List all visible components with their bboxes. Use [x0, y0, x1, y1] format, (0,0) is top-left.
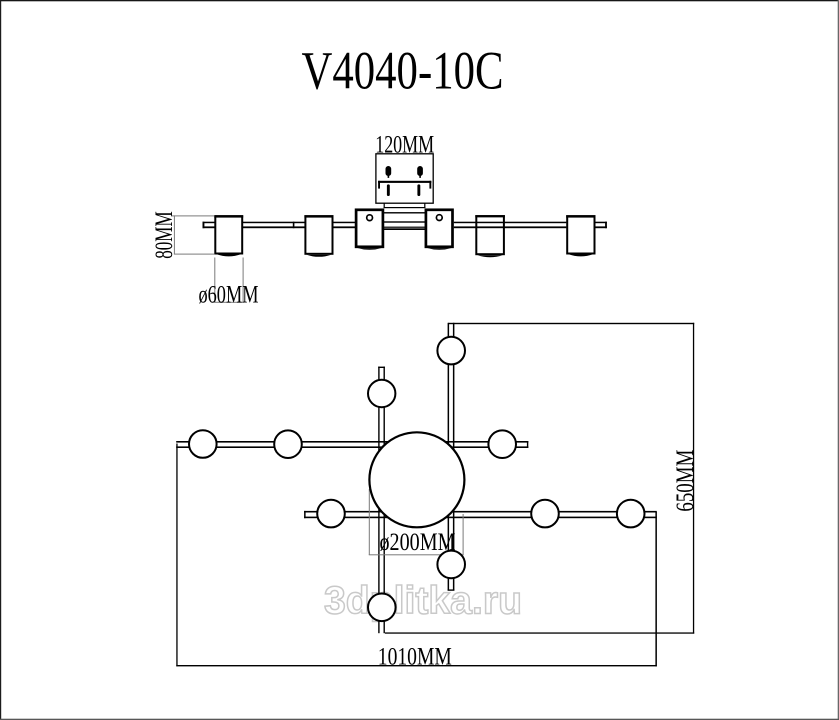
- bulb B2: [437, 551, 465, 579]
- dimension 80MM witness lines: [172, 215, 215, 254]
- bulb L3: [617, 500, 645, 528]
- lower horizontal arm: [304, 511, 657, 518]
- screw 2: [417, 166, 423, 178]
- page border right: [838, 0, 839, 720]
- bulb U2: [274, 430, 302, 458]
- rod joint tick: [293, 222, 295, 229]
- wire: rod segment cyl1-cyl2: [243, 222, 305, 229]
- bulb A2: [368, 594, 396, 622]
- lamp cylinder 6: [566, 215, 595, 256]
- svg-text:80MM: 80MM: [149, 211, 178, 259]
- dimension ø60MM witness lines: [214, 258, 243, 303]
- title V4040-10C: [302, 41, 504, 101]
- watermark 3dplitka.ru: [324, 580, 522, 623]
- lamp cylinder 1: [214, 215, 243, 256]
- screw stem 2: [417, 184, 420, 196]
- svg-text:650MM: 650MM: [670, 450, 699, 512]
- screw 1: [386, 166, 392, 178]
- wire: horizontal rod left tab: [203, 222, 215, 229]
- center box 3 with screw hole: [356, 210, 383, 250]
- dimension ø200MM witness lines: [369, 489, 464, 555]
- page border bottom: [0, 719, 839, 720]
- vertical stem rod A: [378, 367, 385, 634]
- svg-text:120MM: 120MM: [375, 129, 434, 158]
- dimension 1010MM lines: [176, 444, 657, 667]
- page border left: [0, 0, 1, 720]
- canopy bracket box: [376, 154, 433, 203]
- bulb L2: [531, 500, 559, 528]
- svg-text:V4040-10C: V4040-10C: [302, 41, 504, 101]
- upper horizontal arm: [176, 441, 528, 448]
- dimension 650MM lines: [385, 323, 694, 634]
- canopy neck: [384, 203, 426, 208]
- svg-text:ø200MM: ø200MM: [380, 527, 456, 556]
- bulb B1: [437, 337, 465, 365]
- bulb U3: [488, 430, 516, 458]
- svg-text:ø60MM: ø60MM: [199, 280, 259, 309]
- center box 4 with screw hole: [426, 210, 453, 250]
- svg-text:1010MM: 1010MM: [378, 642, 452, 671]
- screw stem 1: [387, 184, 390, 196]
- bulb A1: [368, 380, 395, 407]
- wire: rod segment box4-cyl6 (passes over cyl5): [454, 222, 567, 229]
- lamp cylinder 5 (rod passes across): [475, 215, 505, 257]
- bulb U1: [189, 430, 217, 458]
- connector plate lines between boxes 3 and 4: [383, 212, 426, 230]
- wire: rod right tab: [595, 222, 607, 229]
- vertical stem rod B: [448, 323, 455, 591]
- central sphere ø200: [369, 432, 464, 527]
- page border top: [0, 0, 839, 1]
- bulb L1: [317, 500, 345, 528]
- wire: rod segment cyl2-box3: [334, 222, 356, 229]
- lamp cylinder 2: [304, 215, 333, 257]
- mounting strap: [378, 181, 431, 189]
- svg-text:3dplitka.ru: 3dplitka.ru: [324, 580, 522, 623]
